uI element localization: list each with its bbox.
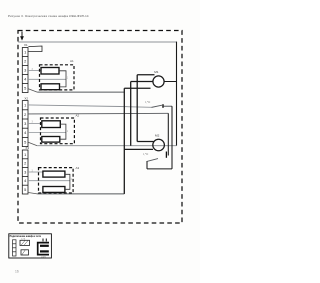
wire loop left — [146, 161, 148, 169]
heater E3 — [42, 121, 61, 128]
wire X3.3 to A3 — [28, 171, 43, 173]
svg-text:А3: А3 — [76, 166, 80, 170]
svg-text:3: 3 — [24, 67, 26, 72]
svg-text:t,°С: t,°С — [143, 152, 149, 156]
legend terminal block 1 — [20, 240, 30, 245]
wire M1 to right — [164, 81, 176, 83]
svg-text:1 2 3: 1 2 3 — [21, 239, 25, 241]
wire loop right — [171, 106, 173, 169]
supply entry arrow — [20, 32, 24, 41]
legend contact bar 1 — [40, 245, 49, 247]
wire V1 to M1 — [137, 74, 154, 76]
svg-text:А1: А1 — [70, 59, 74, 63]
svg-text:Х3: Х3 — [25, 146, 29, 150]
wire loop bottom — [147, 168, 172, 170]
motor M1 — [153, 76, 164, 87]
enclosure dashed border — [18, 31, 182, 224]
wire A2 series link — [60, 124, 66, 139]
svg-text:1: 1 — [67, 77, 69, 80]
thermostat SK1 contact — [162, 104, 164, 108]
thermostat SK2 contact — [165, 152, 167, 158]
wire V3 to M2 — [124, 148, 153, 150]
heater E6 — [43, 187, 65, 193]
wire V3 to M1 — [124, 87, 150, 89]
heater E4 — [42, 137, 60, 143]
svg-text:3: 3 — [24, 169, 26, 174]
connector X1 — [22, 48, 28, 93]
svg-text:1: 1 — [24, 152, 26, 157]
legend terminal block 2 — [21, 250, 29, 255]
svg-text:Рисунок 3. Электрическая схема: Рисунок 3. Электрическая схема шкафа КЭШ… — [8, 14, 89, 18]
svg-text:t,°С: t,°С — [145, 100, 151, 104]
svg-text:1: 1 — [71, 178, 73, 181]
supply line L — [18, 41, 176, 43]
svg-text:2: 2 — [24, 161, 26, 166]
svg-text:2: 2 — [24, 58, 26, 63]
svg-text:М1: М1 — [154, 70, 159, 74]
svg-text:16: 16 — [15, 270, 19, 274]
svg-text:А2: А2 — [76, 114, 80, 118]
wire N2 bus through M2 — [37, 145, 176, 147]
wire A1 series link — [59, 71, 66, 87]
wire X2.1 thermostat line — [28, 105, 152, 107]
wire X2.2 return line — [28, 112, 168, 115]
svg-text:Х1: Х1 — [24, 43, 28, 47]
connector X2 — [22, 101, 28, 147]
wire return vertical — [167, 113, 169, 155]
wire N3 bus — [37, 193, 124, 195]
legend pin ticks — [42, 239, 44, 242]
svg-text:3: 3 — [24, 121, 26, 126]
svg-text:1: 1 — [24, 103, 26, 108]
connector X3 — [22, 150, 28, 194]
heater E1 — [41, 68, 59, 75]
svg-text:2ЩВ: 2ЩВ — [41, 257, 46, 259]
module A2 — [41, 118, 75, 144]
wire X2.4 mid tap — [28, 132, 66, 134]
legend box — [9, 234, 52, 258]
legend connector — [13, 240, 17, 256]
wire V2 to M1 — [131, 81, 153, 83]
svg-text:М2: М2 — [155, 133, 160, 137]
svg-text:1: 1 — [67, 130, 69, 133]
wire V1 — [136, 75, 138, 142]
wire X1.3 to A1 — [28, 70, 41, 72]
module A1 — [40, 65, 75, 90]
module A3 — [39, 168, 74, 193]
thermostat SK1 blade — [152, 105, 163, 107]
wire X2.3 to A2 — [28, 122, 42, 124]
svg-text:5: 5 — [24, 187, 26, 192]
svg-text:5: 5 — [24, 139, 26, 144]
wire X3.4 mid tap — [28, 180, 70, 182]
thermostat SK2 blade — [147, 159, 158, 162]
heater E5 — [43, 171, 65, 177]
svg-text:2: 2 — [24, 112, 26, 117]
svg-text:1: 1 — [24, 49, 26, 54]
svg-text:Х2: Х2 — [24, 97, 28, 101]
svg-text:Подключение шкафа к сети: Подключение шкафа к сети — [10, 235, 42, 238]
wire X2.5 diagonal — [28, 142, 37, 145]
legend contact bar 2 — [40, 250, 49, 252]
wire right-side vertical — [176, 42, 178, 146]
wire X1.5 diagonal — [28, 89, 37, 92]
wire N1 bus — [37, 91, 124, 93]
node X1 jumper — [28, 46, 42, 52]
legend plug bracket — [38, 243, 49, 255]
wire A3 series link — [65, 174, 70, 189]
wire V1 to M2 — [137, 141, 153, 143]
wire X1.4 mid tap — [28, 78, 66, 80]
motor M2 — [153, 139, 165, 151]
wire V3 — [123, 88, 125, 194]
wire SK1 out — [164, 105, 172, 107]
wire V2 — [130, 82, 132, 146]
wire X3.5 diagonal — [28, 193, 37, 194]
heater E2 — [41, 84, 60, 90]
svg-text:5: 5 — [24, 85, 26, 90]
